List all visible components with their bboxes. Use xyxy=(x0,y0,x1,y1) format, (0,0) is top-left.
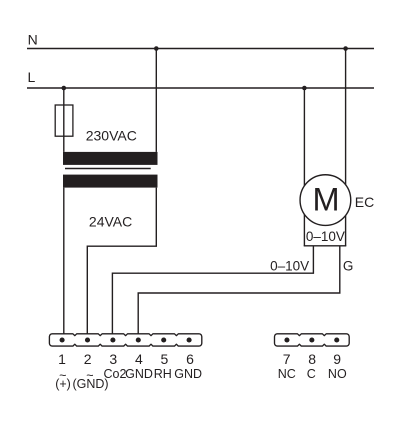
pin number 8 xyxy=(308,351,316,367)
svg-text:0–10V: 0–10V xyxy=(270,258,309,273)
svg-text:(+): (+) xyxy=(55,377,71,391)
junction on N at motor branch xyxy=(343,46,348,51)
svg-text:230VAC: 230VAC xyxy=(86,128,137,144)
wire motor box bottom xyxy=(304,245,347,247)
pin number 3 xyxy=(109,351,117,367)
wire G signal from motor to terminal 4 xyxy=(138,246,340,334)
pin number 2 xyxy=(84,351,92,367)
label G wire xyxy=(343,259,354,274)
terminal 9 contact dot xyxy=(334,337,339,342)
svg-text:GND: GND xyxy=(125,367,153,381)
junction on N at transformer branch xyxy=(154,46,159,51)
label EC xyxy=(355,194,374,210)
label 0-10V port on motor xyxy=(306,229,345,244)
svg-text:24VAC: 24VAC xyxy=(89,213,132,229)
terminal 7 contact dot xyxy=(284,337,289,342)
svg-text:G: G xyxy=(343,259,354,274)
svg-text:4: 4 xyxy=(135,351,143,367)
motor M (EC motor) xyxy=(300,175,351,226)
wire L line xyxy=(27,87,374,89)
svg-text:N: N xyxy=(28,32,38,48)
svg-text:RH: RH xyxy=(154,367,172,381)
label (GND) terminal 2 xyxy=(72,377,108,391)
pin number 5 xyxy=(161,351,169,367)
label 230VAC xyxy=(86,128,137,144)
transformer T1 secondary winding bar xyxy=(63,175,158,188)
label Co2 terminal 3 xyxy=(104,367,127,381)
terminal 6 contact dot xyxy=(187,337,192,342)
terminal 4 contact dot xyxy=(136,337,141,342)
label ~ terminal 1 xyxy=(59,369,66,383)
transformer T1 core line xyxy=(65,168,151,170)
svg-text:EC: EC xyxy=(355,194,374,210)
svg-text:(GND): (GND) xyxy=(72,377,108,391)
label NO terminal 9 xyxy=(328,367,347,381)
terminal 1 contact dot xyxy=(60,337,65,342)
terminal 5 contact dot xyxy=(161,337,166,342)
wire L to transformer primary left (through fuse) xyxy=(63,88,65,152)
wire N to transformer primary right xyxy=(155,49,157,152)
svg-text:M: M xyxy=(312,181,339,217)
wire N line xyxy=(27,48,374,50)
terminal 3 contact dot xyxy=(110,337,115,342)
svg-text:8: 8 xyxy=(308,351,316,367)
label NC terminal 7 xyxy=(278,367,296,381)
label (+) terminal 1 xyxy=(55,377,71,391)
label 24VAC xyxy=(89,213,132,229)
pin number 6 xyxy=(186,351,194,367)
svg-text:C: C xyxy=(307,367,316,381)
label GND terminal 6 xyxy=(174,367,202,381)
label C terminal 8 xyxy=(307,367,316,381)
svg-text:7: 7 xyxy=(283,351,291,367)
terminal 8 contact dot xyxy=(309,337,314,342)
junction on L at fuse branch xyxy=(62,86,67,91)
svg-text:NC: NC xyxy=(278,367,296,381)
fuse F1 xyxy=(55,105,73,136)
svg-text:L: L xyxy=(28,69,36,85)
terminal block TB1 body (terminals 1-6) xyxy=(49,334,201,346)
label ~ terminal 2 xyxy=(86,369,93,383)
svg-text:2: 2 xyxy=(84,351,92,367)
svg-text:GND: GND xyxy=(174,367,202,381)
svg-text:6: 6 xyxy=(186,351,194,367)
svg-text:5: 5 xyxy=(161,351,169,367)
wire secondary right to terminal 2 xyxy=(87,188,156,334)
terminal 2 contact dot xyxy=(85,337,90,342)
svg-text:1: 1 xyxy=(58,351,66,367)
wire secondary left to terminal 1 xyxy=(63,188,65,334)
svg-text:NO: NO xyxy=(328,367,347,381)
pin number 9 xyxy=(333,351,341,367)
node L label xyxy=(28,69,36,85)
svg-text:0–10V: 0–10V xyxy=(306,229,345,244)
transformer T1 primary winding bar xyxy=(63,152,158,165)
wire 0-10V signal from motor to terminal 3 xyxy=(112,246,313,334)
svg-text:3: 3 xyxy=(109,351,117,367)
wire motor box left side from L xyxy=(303,88,305,246)
svg-text:9: 9 xyxy=(333,351,341,367)
wire motor box right side from N xyxy=(345,49,347,246)
pin number 7 xyxy=(283,351,291,367)
label RH terminal 5 xyxy=(154,367,172,381)
node N label xyxy=(28,32,38,48)
pin number 4 xyxy=(135,351,143,367)
label GND terminal 4 xyxy=(125,367,153,381)
pin number 1 xyxy=(58,351,66,367)
terminal block TB2 body (terminals 7-9) xyxy=(275,334,350,346)
label 0-10V wire xyxy=(270,258,309,273)
junction on L at motor branch xyxy=(302,86,307,91)
